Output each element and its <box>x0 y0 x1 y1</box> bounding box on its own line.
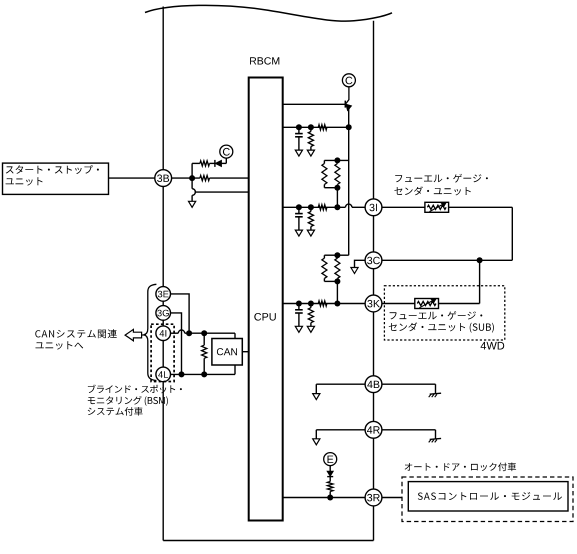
label CAN system line1 <box>35 329 117 338</box>
connector C upper-left <box>220 145 233 158</box>
wire torn-edge wavy top line <box>145 5 392 21</box>
label SAS control module <box>418 492 562 500</box>
wire left bus 3G-4I segment <box>162 320 164 326</box>
module SAS control box <box>408 482 568 511</box>
wire pair2 top rail <box>324 254 337 256</box>
wire junction down to 3K row <box>479 260 481 303</box>
resistor pair2 left <box>323 255 325 258</box>
junction row 3I pair1 <box>334 204 340 210</box>
wire right bus below 3R <box>373 506 375 541</box>
wire pair1 top rail <box>324 159 348 161</box>
wire resistor to 3R row <box>329 492 331 498</box>
wire left bus 3E-3G segment <box>162 301 164 306</box>
module start-stop unit box <box>3 163 109 194</box>
wire branch riser <box>191 163 193 178</box>
label CPU <box>254 313 275 321</box>
label CAN system line2 <box>36 341 84 349</box>
wire branch to diode <box>192 162 200 164</box>
chassis ground 4R <box>430 438 441 439</box>
wire left bus upper segment <box>162 7 164 170</box>
sender resistor box 3I <box>425 202 449 212</box>
label start-stop unit line1 <box>6 165 99 174</box>
junction row1 at C line <box>346 124 352 130</box>
node 3G <box>156 306 171 321</box>
wire pair2 to 3K row <box>336 281 338 303</box>
wire 4I to CAN <box>234 333 236 338</box>
wire sender SUB to 3K <box>382 303 415 305</box>
junction 3G on 4L row <box>179 371 185 377</box>
junction E on 3R row <box>327 495 333 501</box>
ground arrow 4R left <box>313 439 320 445</box>
node 3K <box>365 295 382 312</box>
node 3B <box>155 170 172 187</box>
label BSM line3 <box>88 407 143 416</box>
label 4WD <box>481 342 505 350</box>
wire diode to resistor <box>329 477 331 482</box>
resistor row 3I series <box>318 205 327 210</box>
wire 4L to CAN <box>234 365 236 374</box>
wire 4R left drop <box>315 430 317 439</box>
module CAN box <box>212 339 242 366</box>
junction 3C row <box>477 257 483 263</box>
label start-stop unit line2 <box>6 177 43 185</box>
brace for CAN nodes <box>144 284 157 380</box>
wire sender to corner <box>449 206 513 208</box>
node 4L <box>156 367 171 382</box>
resistor row 3K to ground <box>310 304 312 308</box>
wire right bus 4R-3R segment <box>373 438 375 489</box>
wire C line corner to pair2 <box>337 254 348 256</box>
module fuel sender SUB dashed box <box>384 286 504 340</box>
wire RBCM row 3I <box>283 206 346 208</box>
junction res on 4L row <box>201 371 207 377</box>
wire start-stop to 3B <box>109 177 155 179</box>
module SAS dashed box <box>402 477 573 522</box>
resistor on 3B wire <box>200 176 210 181</box>
junction res on 4I row <box>201 330 207 336</box>
wire RBCM row 3K <box>283 303 366 305</box>
node 4B <box>365 376 382 393</box>
junction row 3K res <box>308 301 314 307</box>
junction row1 res <box>308 124 314 130</box>
wire 3E right <box>171 294 190 333</box>
label BSM line1 <box>88 385 182 394</box>
junction row 3K cap <box>296 301 302 307</box>
wire 4B right drop <box>435 384 437 393</box>
label fuel gauge sender line1 <box>395 174 488 183</box>
wire RBCM to diode bar <box>283 103 346 105</box>
wire RBCM to 3R <box>283 497 366 499</box>
junction pair1 bottom <box>334 185 340 191</box>
junction pair2 bottom <box>334 278 340 284</box>
wire right bus 3C-3K segment <box>373 269 375 296</box>
wire 3K row right <box>439 303 480 305</box>
connector E <box>324 453 337 466</box>
wire 4I row <box>171 332 179 334</box>
capacitor row1 to ground <box>298 127 300 133</box>
resistor row1 series <box>318 125 327 130</box>
junction row 3K pair2 <box>334 301 340 307</box>
junction row 3I cap <box>296 204 302 210</box>
module BSM dashed box <box>151 324 174 381</box>
wire 3C ground stub <box>355 260 366 267</box>
node 4R <box>365 421 382 438</box>
diode below E <box>327 471 333 476</box>
junction pair2 top <box>334 252 340 258</box>
wire left bus 4I-4L segment <box>162 341 164 368</box>
ground arrow below 3B branch <box>189 201 196 207</box>
resistor on C branch <box>200 161 210 166</box>
wire pair2 bottom rail <box>324 280 337 282</box>
wire 4B row <box>316 383 435 385</box>
connector C top <box>342 74 355 87</box>
chassis ground 4B <box>430 393 441 394</box>
wire RBCM ground stub <box>195 191 249 193</box>
diode at C corner <box>344 101 346 108</box>
node 3C <box>365 252 382 269</box>
resistor pair1 left <box>323 160 325 163</box>
wire bottom return <box>163 540 373 542</box>
resistor row 3K series <box>318 301 327 306</box>
wire diode to connector C <box>346 87 349 109</box>
wire corner down to 3C row <box>511 207 513 260</box>
resistor row1 to ground <box>310 127 312 131</box>
junction row1 cap <box>296 124 302 130</box>
ground arrow at 3C <box>351 268 358 274</box>
capacitor row 3K to ground <box>298 304 300 310</box>
wire up to connector C <box>225 158 227 164</box>
label BSM line2 <box>88 396 168 406</box>
sender resistor box 3K <box>415 299 439 309</box>
diode on C branch <box>210 162 216 164</box>
wire right bus 3I-3C segment <box>373 216 375 252</box>
wire left bus lower segment <box>162 382 164 541</box>
wire pair1 to 3I row <box>336 188 338 208</box>
wire pair1 bottom rail <box>324 187 337 189</box>
junction row 3I res <box>308 204 314 210</box>
node 3R <box>365 489 382 506</box>
wire CAN to RBCM <box>242 351 248 353</box>
wire C vertical <box>348 109 350 256</box>
node 3I <box>365 199 382 216</box>
arrow to CAN system <box>125 329 142 340</box>
node 4I <box>156 326 171 341</box>
resistor row 3I to ground <box>310 207 312 211</box>
capacitor row 3I to ground <box>298 207 300 213</box>
ground arrow 4B left <box>313 394 320 400</box>
wire 3B to RBCM <box>172 177 200 179</box>
resistor CAN termination <box>203 333 205 345</box>
resistor E branch <box>327 482 333 492</box>
module RBCM box <box>249 78 283 521</box>
wire 3R to SAS box <box>382 497 402 499</box>
wire 3C to corner <box>382 259 513 261</box>
wire 4R row <box>316 429 435 431</box>
label fuel sender SUB line2 <box>389 322 494 332</box>
resistor pair1 right <box>336 160 338 163</box>
label fuel sender SUB line1 <box>390 311 483 320</box>
wire right bus 4B-4R segment <box>373 393 375 422</box>
wire 3G right <box>171 313 182 375</box>
label auto door lock <box>405 463 516 472</box>
wire 3I to sender <box>382 206 425 208</box>
resistor pair2 right <box>336 255 338 258</box>
junction on 3B wire <box>189 175 195 181</box>
wire right bus top segment <box>373 21 375 199</box>
wire 4R right drop <box>435 430 437 439</box>
node 3E <box>156 287 171 302</box>
label RBCM <box>250 57 279 64</box>
label fuel gauge sender line2 <box>394 186 470 195</box>
wire RBCM row1 <box>283 126 349 128</box>
junction pair1 top <box>334 157 340 163</box>
wire right bus 3K-4B segment <box>373 312 375 376</box>
wire left bus 3B-3E segment <box>162 187 164 287</box>
label CAN <box>217 348 237 355</box>
wire E to diode <box>329 465 331 471</box>
junction 3E on 4I row <box>186 330 192 336</box>
wire 4B left drop <box>315 384 317 393</box>
wire 4L row <box>171 373 235 375</box>
wire junction to ground with hop <box>191 180 193 189</box>
